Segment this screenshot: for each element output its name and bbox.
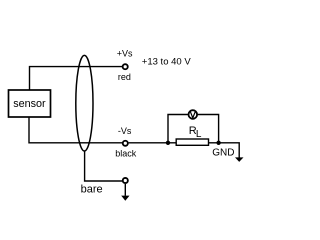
wire: -Vs rail to GND corner <box>129 143 240 158</box>
voltmeter V label <box>190 111 195 118</box>
svg-text:GND: GND <box>212 147 234 158</box>
resistor RL <box>176 139 208 145</box>
ground arrow at bare <box>121 196 129 201</box>
voltmeter U1 <box>189 110 198 119</box>
terminal -Vs <box>123 141 128 146</box>
wire: bare terminal to ground <box>124 184 126 196</box>
svg-text:bare: bare <box>81 183 103 195</box>
svg-text:red: red <box>118 72 131 82</box>
terminal +Vs <box>123 64 128 69</box>
junction dot left <box>166 141 170 145</box>
junction dot right <box>216 141 220 145</box>
ground arrow at GND <box>235 157 244 162</box>
svg-text:+13 to 40 V: +13 to 40 V <box>142 56 192 67</box>
wire: sensor top to +Vs terminal <box>30 67 123 90</box>
wire: voltmeter loop <box>168 115 219 143</box>
svg-text:sensor: sensor <box>13 98 46 110</box>
wire: shield to bare terminal <box>85 151 122 182</box>
terminal bare <box>123 178 128 183</box>
svg-text:L: L <box>196 129 202 140</box>
cable shield ellipse <box>76 55 93 151</box>
svg-text:+Vs: +Vs <box>117 49 133 59</box>
sensor box <box>9 90 51 117</box>
wire: sensor bottom to -Vs terminal <box>29 117 122 143</box>
svg-text:-Vs: -Vs <box>118 126 132 136</box>
svg-text:black: black <box>115 148 137 158</box>
